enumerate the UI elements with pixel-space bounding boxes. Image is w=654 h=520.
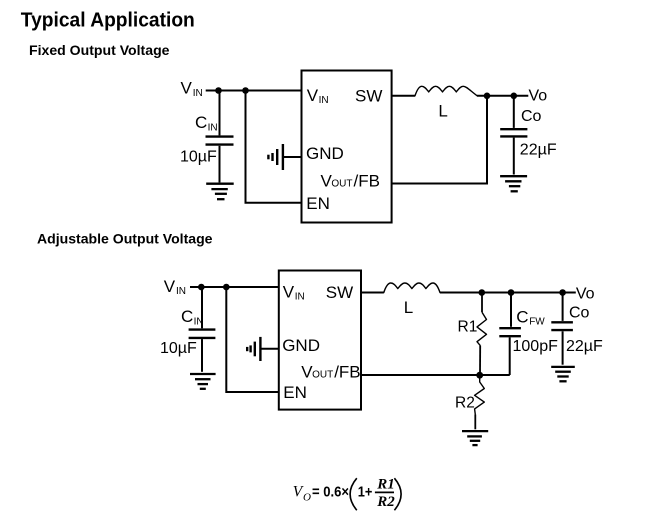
svg-text:Vo: Vo: [576, 286, 595, 303]
svg-text:R1: R1: [458, 318, 478, 335]
svg-text:C: C: [516, 308, 528, 327]
svg-text:V: V: [307, 86, 319, 105]
svg-text:C: C: [195, 113, 207, 132]
svg-text:R2: R2: [376, 494, 395, 510]
svg-text:EN: EN: [283, 383, 307, 402]
svg-text:22µF: 22µF: [566, 338, 603, 355]
svg-text:GND: GND: [306, 144, 344, 163]
svg-text:SW: SW: [326, 283, 353, 302]
svg-text:Vo: Vo: [529, 88, 548, 105]
svg-text:IN: IN: [176, 286, 186, 297]
svg-text:100pF: 100pF: [513, 338, 559, 355]
svg-text:O: O: [303, 491, 311, 503]
svg-text:/FB: /FB: [354, 171, 380, 190]
svg-text:V: V: [181, 79, 193, 98]
svg-text:Typical Application: Typical Application: [21, 10, 195, 32]
svg-text:IN: IN: [319, 95, 329, 106]
svg-text:OUT: OUT: [331, 178, 352, 189]
svg-text:10µF: 10µF: [160, 340, 197, 357]
svg-text:Adjustable Output Voltage: Adjustable Output Voltage: [37, 231, 213, 247]
svg-text:L: L: [438, 101, 447, 120]
svg-text:IN: IN: [295, 292, 305, 303]
svg-text:= 0.6×: = 0.6×: [312, 483, 349, 500]
svg-text:OUT: OUT: [312, 370, 333, 381]
svg-text:FW: FW: [529, 317, 545, 328]
svg-text:GND: GND: [282, 336, 320, 355]
svg-text:10µF: 10µF: [180, 149, 217, 166]
svg-text:C: C: [181, 307, 193, 326]
svg-text:SW: SW: [355, 86, 382, 105]
svg-text:/FB: /FB: [334, 363, 360, 382]
svg-text:R1: R1: [376, 477, 395, 493]
svg-text:IN: IN: [194, 316, 204, 327]
svg-text:L: L: [404, 298, 413, 317]
svg-text:22µF: 22µF: [520, 141, 557, 158]
svg-text:IN: IN: [208, 123, 218, 134]
svg-text:V: V: [164, 277, 176, 296]
svg-text:V: V: [283, 282, 295, 301]
svg-text:Co: Co: [521, 108, 542, 125]
svg-text:1+: 1+: [358, 483, 373, 500]
svg-text:IN: IN: [193, 88, 203, 99]
svg-text:Co: Co: [569, 305, 590, 322]
svg-text:EN: EN: [306, 194, 330, 213]
svg-text:Fixed Output Voltage: Fixed Output Voltage: [29, 42, 170, 58]
svg-text:R2: R2: [455, 395, 475, 412]
